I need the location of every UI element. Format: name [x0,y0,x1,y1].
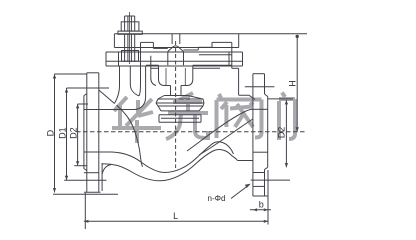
svg-text:D2: D2 [277,127,287,139]
svg-text:D: D [45,129,55,136]
svg-text:D2: D2 [69,127,79,139]
svg-text:L: L [173,211,178,221]
svg-text:b: b [259,199,264,209]
svg-text:D1: D1 [58,127,68,139]
svg-text:n-Φd: n-Φd [208,194,226,203]
svg-text:H: H [288,80,298,87]
